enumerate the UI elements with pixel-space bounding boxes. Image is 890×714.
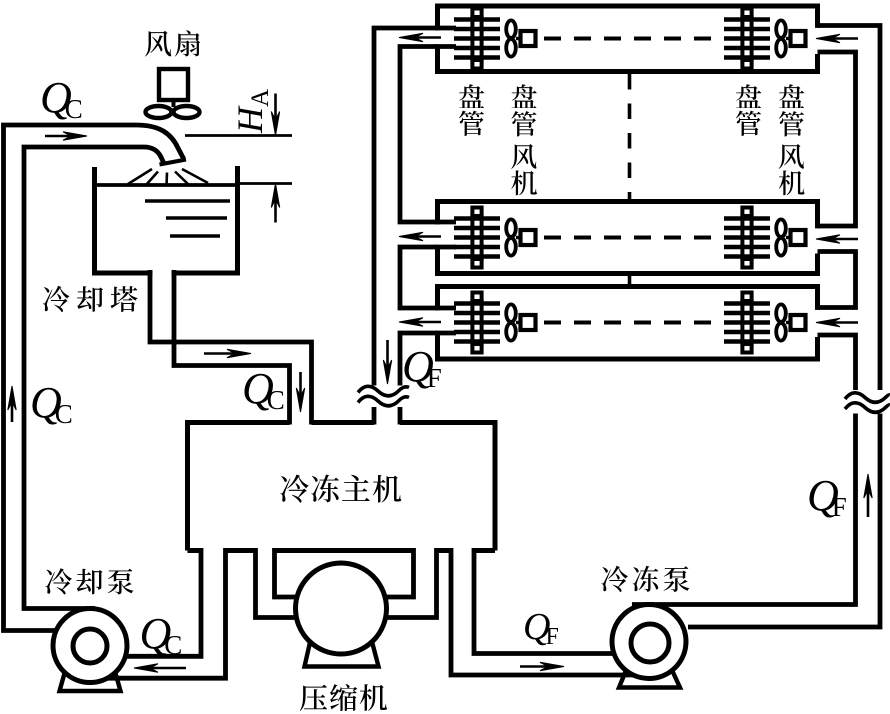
fan coil unit box 2	[438, 202, 818, 274]
dimension ref line lower	[240, 182, 292, 185]
chilled pump impeller	[631, 624, 669, 662]
wire: compressor discharge outer	[377, 548, 437, 618]
wire: coil stubs box 2	[435, 222, 456, 247]
compressor 压缩机 circle	[296, 563, 387, 654]
cooling pump impeller	[73, 629, 107, 663]
svg-text:机: 机	[778, 162, 805, 201]
wire: chilled return inner seg1	[400, 47, 438, 223]
flow arrow down, return pipe	[383, 340, 391, 384]
compressor base	[305, 638, 379, 667]
tank bottom	[92, 271, 240, 276]
svg-text:冷却泵: 冷却泵	[44, 561, 137, 601]
water surface line	[92, 183, 240, 187]
fan blade right	[174, 106, 200, 118]
flow arrow up, supply riser	[864, 474, 872, 517]
coil fan left, unit 3	[506, 304, 535, 340]
wire: compressor suction outer	[256, 548, 306, 618]
svg-text:冷冻主机: 冷冻主机	[279, 465, 403, 509]
dashed connector stub	[628, 276, 632, 284]
label 盘管风机 right unit	[778, 76, 805, 201]
dashed connector line	[628, 74, 632, 199]
fan blade left	[146, 106, 172, 118]
wire: supply riser outer	[818, 26, 881, 391]
flow arrow down into chiller	[296, 372, 304, 412]
cooling pump base	[60, 668, 121, 691]
cooling tower tank left wall	[92, 167, 97, 273]
dashed centerline box 2	[544, 236, 722, 240]
coil right, unit 1	[724, 9, 770, 69]
flow arrow into unit 2 left	[399, 232, 441, 240]
wire: cooling return pipe top outer	[4, 125, 184, 631]
wire: supply riser inner seg1	[818, 52, 856, 226]
label 盘管 right unit	[735, 76, 762, 142]
fan shaft	[172, 100, 176, 107]
coil left, unit 2	[454, 208, 500, 268]
coil fan right, unit 2	[776, 219, 805, 255]
svg-text:管: 管	[735, 103, 762, 142]
flow arrow right, top pipe	[45, 132, 87, 140]
wire: cooling outlet inner	[104, 548, 226, 678]
wire: chilled supply outer	[451, 548, 640, 675]
label 盘管风机 left unit	[511, 76, 538, 201]
coil fan right, unit 1	[776, 20, 805, 56]
flow arrow into unit 1 right	[816, 34, 858, 42]
wire: chilled return inner lower	[398, 407, 403, 425]
chilled pump volute	[612, 605, 686, 679]
wire: tower outlet pipe outer	[150, 270, 312, 425]
cooling pump volute	[53, 609, 127, 683]
svg-text:机: 机	[511, 162, 538, 201]
svg-text:冷却塔: 冷却塔	[42, 279, 144, 319]
wire: chilled return pipe outer	[374, 28, 438, 386]
wire: chilled return inner seg2	[400, 247, 438, 308]
svg-text:管: 管	[458, 103, 485, 142]
wire: supply riser inner lower	[632, 414, 856, 605]
wire: tower outlet pipe inner	[174, 270, 290, 425]
fan coil unit box 1	[438, 6, 818, 72]
wire: supply riser outer lower	[688, 414, 880, 628]
dimension ref line upper	[185, 134, 292, 137]
svg-text:冷冻泵: 冷冻泵	[600, 559, 693, 599]
pipe break symbol right	[845, 393, 890, 413]
coil fan left, unit 1	[506, 20, 535, 56]
water lines	[145, 201, 230, 236]
flow arrow into unit 3 left	[399, 318, 441, 326]
dimension arrow up	[271, 184, 279, 223]
flow arrow right to chilled pump	[520, 662, 564, 670]
wire: supply riser inner seg3	[818, 335, 856, 390]
wire: cooling outlet outer	[122, 548, 201, 656]
wire: compressor discharge inner	[380, 548, 414, 597]
wire: cooling return pipe top inner	[24, 147, 164, 609]
flow arrow into unit 2 right	[816, 235, 858, 243]
wire: chilled return pipe outer lower	[372, 407, 377, 425]
coil fan right, unit 3	[776, 304, 805, 340]
coil right, unit 3	[724, 293, 770, 353]
wire: compressor suction inner	[275, 548, 303, 597]
cooling tower tank right wall	[235, 166, 240, 273]
coil left, unit 3	[454, 293, 500, 353]
fan motor box	[159, 69, 188, 100]
dimension arrow down	[271, 94, 279, 136]
coil fan left, unit 2	[506, 219, 535, 255]
svg-text:风扇: 风扇	[144, 23, 204, 63]
fan coil unit box 3	[438, 287, 818, 360]
flow arrow into unit 3 right	[816, 318, 858, 326]
flow arrow up, left cooling pipe	[8, 386, 16, 422]
coil left, unit 1	[454, 9, 500, 69]
coil right, unit 2	[724, 208, 770, 268]
pipe break symbol left	[358, 386, 409, 406]
flow arrow into unit 1 left	[399, 33, 441, 41]
flow arrow right, tower outlet	[204, 349, 251, 357]
label 盘管 left unit	[458, 76, 485, 142]
chiller 冷冻主机 box	[188, 423, 496, 551]
spray lines	[128, 169, 208, 186]
wire: coil stubs box 1	[435, 28, 456, 47]
wire: chilled supply inner	[474, 548, 618, 654]
wire: supply riser inner seg2	[818, 252, 856, 308]
svg-text:压缩机: 压缩机	[299, 677, 389, 714]
flow arrow left to cooling pump	[134, 664, 186, 672]
wire: chilled return inner seg3	[400, 333, 438, 386]
wire: coil stubs box 3	[435, 308, 456, 333]
chilled pump base	[619, 668, 680, 688]
dashed centerline box 3	[544, 321, 722, 325]
dashed centerline box 1	[544, 37, 722, 41]
spout mouth	[160, 160, 187, 165]
